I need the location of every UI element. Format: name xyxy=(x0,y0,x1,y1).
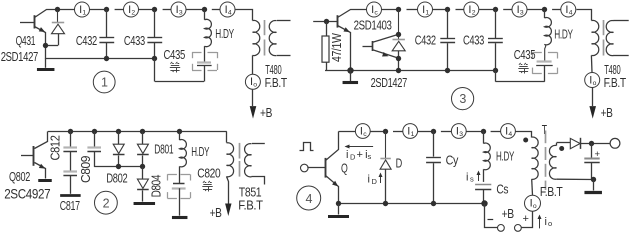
C435 plates xyxy=(197,61,211,63)
wire c3 f xyxy=(527,9,544,11)
current meter I4 c4 xyxy=(501,124,516,139)
node dot Cy top xyxy=(431,129,436,134)
circuit 3: darlington horizontal output stage xyxy=(0,0,1,1)
current meter I1 c3 xyxy=(418,2,433,17)
T851 secondary bottom lead xyxy=(252,177,265,185)
svg-text:C432: C432 xyxy=(76,33,97,48)
resistor 47/1W xyxy=(326,21,328,36)
capacitor C432 c3 xyxy=(447,10,449,39)
circled number 3 xyxy=(452,88,474,110)
flyback T primary c4 xyxy=(531,136,533,138)
ground c4 xyxy=(338,204,340,215)
node dot diode top xyxy=(396,32,401,37)
svg-text:C432: C432 xyxy=(415,33,436,48)
T480 secondary top lead c3 xyxy=(613,20,628,22)
T480 secondary bottom lead c3 xyxy=(613,55,628,57)
node dot rail Cy c4 xyxy=(431,201,436,206)
svg-text:1: 1 xyxy=(411,131,415,138)
transistor 2SD1403 body xyxy=(337,15,339,27)
node dot H.DY top xyxy=(202,7,207,12)
svg-text:2: 2 xyxy=(472,9,476,16)
label deng c2 xyxy=(203,181,205,183)
T480 core xyxy=(264,20,266,35)
secondary top wire to diode xyxy=(557,142,571,144)
node dot bottom C432 xyxy=(104,56,109,61)
node dot C432 top xyxy=(104,7,109,12)
svg-text:F.B.T: F.B.T xyxy=(540,184,563,199)
wire collector to Ic xyxy=(339,131,356,133)
retrace capacitor C435 bracket box c3 xyxy=(532,52,542,54)
svg-text:+ i: + i xyxy=(357,149,368,161)
deflection yoke H.DY coil c3 xyxy=(544,10,546,19)
current meter I1 xyxy=(75,2,90,17)
mid rail c2 xyxy=(94,166,143,168)
Q431 emitter arrow xyxy=(39,27,47,34)
current meter I3 c4 xyxy=(451,124,466,139)
current meter I3 xyxy=(171,2,186,17)
wire plus terminal to Io xyxy=(522,212,533,228)
transistor Q802 body xyxy=(33,146,35,166)
2SD1427 collector wire xyxy=(373,34,399,42)
2SD1403 emitter wire xyxy=(338,26,351,71)
+B arrow circuit 1 xyxy=(252,90,254,106)
deflection yoke H.DY coil c2 xyxy=(179,131,181,140)
wire I1-C432 xyxy=(90,9,107,11)
wire c4 a xyxy=(393,131,403,133)
T core c4 xyxy=(545,131,547,144)
current meter I4 xyxy=(220,2,235,17)
node dot D802 top xyxy=(116,129,121,134)
svg-text:o: o xyxy=(253,82,257,89)
ground D804 xyxy=(134,202,156,205)
rectifier diode c4 xyxy=(570,138,580,148)
svg-text:C809: C809 xyxy=(79,156,93,183)
ground filter cap xyxy=(593,180,595,191)
T secondary c4 xyxy=(556,143,558,146)
svg-text:C817: C817 xyxy=(60,198,80,213)
Q emitter arrow xyxy=(332,181,340,189)
Q802 base wire xyxy=(21,155,34,157)
svg-text:o: o xyxy=(593,80,597,87)
node dot rectifier out xyxy=(589,141,594,146)
capacitor C433 c3 xyxy=(495,10,497,39)
svg-text:i: i xyxy=(545,216,547,228)
T480 secondary top lead xyxy=(277,20,291,22)
circled number 2 xyxy=(95,191,118,214)
svg-text:D804: D804 xyxy=(149,175,163,198)
T480 primary bottom lead xyxy=(252,55,254,74)
wire c3 d xyxy=(479,9,495,11)
capacitor C433 xyxy=(154,10,156,38)
Q802 collector wire xyxy=(35,132,48,149)
wire c3 a xyxy=(407,9,418,11)
diode D804 xyxy=(142,167,144,179)
wire I4 to T480 xyxy=(236,10,253,21)
2SD1427 emitter arrow xyxy=(382,52,389,58)
node dot rail diode c3 xyxy=(396,68,401,73)
bottom rail circuit 1 xyxy=(46,58,155,60)
svg-text:4: 4 xyxy=(228,9,232,16)
wire c3 g xyxy=(552,9,560,11)
diode D802 xyxy=(118,131,120,144)
svg-text:47/1W: 47/1W xyxy=(330,33,344,62)
ground c3 xyxy=(350,70,352,81)
flyback T480 primary winding xyxy=(253,20,260,55)
node dot rail C433 c3 xyxy=(493,68,498,73)
current meter I3 c3 xyxy=(512,2,527,17)
Q emitter wire xyxy=(326,176,339,204)
label minus xyxy=(488,219,494,221)
label deng c3 xyxy=(519,63,521,65)
svg-text:i: i xyxy=(466,172,468,184)
C435 bottom wire c3 xyxy=(544,65,546,81)
svg-text:D802: D802 xyxy=(106,171,127,186)
Q collector wire xyxy=(326,132,339,161)
T851 secondary top lead xyxy=(252,143,265,145)
svg-text:+B: +B xyxy=(601,105,613,120)
node dot HDY c3 xyxy=(542,7,547,12)
svg-text:C812: C812 xyxy=(49,135,63,160)
svg-text:H.DY: H.DY xyxy=(215,26,234,41)
T851 secondary xyxy=(245,144,252,177)
Q431 emitter wire xyxy=(35,27,46,59)
flyback T851 primary xyxy=(227,143,234,177)
svg-text:Q431: Q431 xyxy=(16,33,36,48)
T480 secondary c3 xyxy=(606,21,613,56)
+B arrow circuit 3 xyxy=(592,88,594,106)
node dot HDY top c4 xyxy=(481,129,486,134)
secondary phase dot xyxy=(559,146,564,151)
wire c4 d xyxy=(466,131,483,133)
node dot c3 rail1 xyxy=(396,7,401,12)
svg-text:c: c xyxy=(363,131,367,138)
svg-text:+B: +B xyxy=(502,206,515,221)
current meter I2 xyxy=(124,2,139,17)
svg-text:F.B.T: F.B.T xyxy=(604,75,626,90)
2SD1427 emitter wire xyxy=(373,50,399,59)
current meter I2 c3 xyxy=(464,2,479,17)
current meter Io c1 xyxy=(245,74,260,89)
T480 core c3 xyxy=(603,20,605,35)
label io up xyxy=(539,216,541,229)
svg-text:3: 3 xyxy=(179,9,183,16)
node dot rail D c4 xyxy=(383,201,388,206)
svg-text:Cy: Cy xyxy=(446,153,459,168)
node dot on emitter xyxy=(43,43,48,48)
svg-text:4: 4 xyxy=(508,131,512,138)
wire c4 b xyxy=(418,131,434,133)
node dot secondary bottom xyxy=(591,177,596,182)
filter capacitor c4 xyxy=(591,143,593,158)
svg-text:i: i xyxy=(368,174,370,186)
svg-text:C435: C435 xyxy=(514,47,536,62)
svg-text:D: D xyxy=(396,156,402,171)
node dot C812 xyxy=(68,129,73,134)
transistor 2SD1427 body (inner) xyxy=(372,41,374,51)
T480 secondary bottom lead xyxy=(277,55,291,57)
wire diode to output xyxy=(581,143,610,145)
T480 secondary winding xyxy=(269,21,276,56)
input wire c3 xyxy=(313,21,337,23)
current meter Ic c3 xyxy=(367,2,382,17)
svg-text:Cs: Cs xyxy=(496,182,508,197)
circuit 4: equivalent circuit with current labels xyxy=(0,0,1,1)
damper diode of Q431 xyxy=(57,10,59,23)
wire to minus terminal xyxy=(485,204,498,228)
svg-text:2: 2 xyxy=(103,196,110,210)
ground below Q431 emitter xyxy=(45,58,47,68)
ground C820 xyxy=(172,216,188,219)
diode-to-emitter wire xyxy=(46,45,58,47)
input wire c4 xyxy=(307,167,325,169)
input pulse symbol xyxy=(300,143,314,151)
circuit 1: horizontal output stage, single transistor xyxy=(0,0,1,1)
wire HDY-I4 xyxy=(212,9,220,11)
wire I4 to T xyxy=(516,132,532,138)
node dot HDY c2 xyxy=(177,129,182,134)
node dot rail Cs c4 xyxy=(481,200,487,206)
capacitor C812 xyxy=(70,131,72,147)
svg-text:4: 4 xyxy=(569,9,573,16)
transistor Q body xyxy=(325,158,327,178)
current meter Io c4 xyxy=(525,195,541,211)
svg-text:C435: C435 xyxy=(164,47,186,62)
node dot D801 top xyxy=(140,129,145,134)
svg-text:+B: +B xyxy=(210,205,222,220)
wire c4 c xyxy=(441,131,452,133)
svg-text:F.B.T: F.B.T xyxy=(238,198,263,213)
plus terminal circle xyxy=(515,225,522,232)
svg-text:C820: C820 xyxy=(197,166,220,181)
wire I3 left xyxy=(163,9,171,11)
C820 bottom wire xyxy=(179,188,181,215)
node dot bottom C433 xyxy=(152,56,157,61)
deflection yoke H.DY c4 xyxy=(483,131,485,144)
capacitor C809 xyxy=(94,131,96,147)
bottom rail c4 xyxy=(339,203,485,205)
node dot C432 c3 xyxy=(445,7,450,12)
top rail c2 xyxy=(48,131,227,133)
node dot D802 bottom xyxy=(116,164,121,169)
svg-text:+: + xyxy=(523,213,529,225)
node dot rail C432 c3 xyxy=(445,68,450,73)
bottom rail c3 xyxy=(325,70,495,72)
2SD1403 emitter arrow xyxy=(343,27,351,34)
node dot D top xyxy=(383,129,388,134)
2SD1427 base stub xyxy=(363,46,373,48)
svg-text:i: i xyxy=(346,149,348,161)
wire I2 left xyxy=(115,9,124,11)
T851 core xyxy=(239,143,241,159)
wire Ic-node xyxy=(382,9,399,11)
wire c4 e xyxy=(491,131,501,133)
svg-text:+B: +B xyxy=(260,105,272,120)
capacitor C432 xyxy=(106,10,108,38)
capacitor Cs xyxy=(475,184,491,186)
primary phase dot xyxy=(523,138,528,143)
svg-text:2SC4927: 2SC4927 xyxy=(4,186,51,202)
wire Ic-D node xyxy=(370,131,385,133)
node dot rail emitter c3 xyxy=(347,67,353,73)
svg-text:1: 1 xyxy=(82,9,86,16)
capacitor C817 xyxy=(63,170,77,172)
arrow iD+is xyxy=(346,146,374,148)
wire I3-HDY node xyxy=(186,9,204,11)
circled number 1 xyxy=(93,71,115,93)
input terminal circle xyxy=(301,164,309,172)
transistor Q431 body xyxy=(34,15,36,28)
svg-text:3: 3 xyxy=(520,9,524,16)
C435 plates c3 xyxy=(537,60,552,62)
svg-text:4: 4 xyxy=(305,192,312,206)
svg-text:Q: Q xyxy=(341,160,348,175)
diode D c4 xyxy=(385,131,387,158)
minus terminal circle xyxy=(498,225,505,232)
current meter I1 c4 xyxy=(403,124,418,139)
circuit 2: output stage with modulator diodes xyxy=(0,0,1,1)
svg-text:o: o xyxy=(548,219,552,228)
svg-text:1: 1 xyxy=(425,9,429,16)
capacitor Cy xyxy=(433,131,435,157)
wire c3 b xyxy=(433,9,448,11)
C820 plates xyxy=(173,183,185,185)
current meter Io c3 xyxy=(585,73,600,88)
node dot C433 top xyxy=(152,7,157,12)
svg-text:o: o xyxy=(533,203,537,210)
retrace capacitor C435 bracket box xyxy=(192,52,202,54)
node dot C433 c3 xyxy=(493,7,498,12)
node dot base c3 xyxy=(324,19,329,24)
Q802 emitter wire xyxy=(35,163,46,179)
wire c3 e xyxy=(503,9,512,11)
deflection yoke H.DY coil xyxy=(204,10,206,20)
svg-text:2SD1427: 2SD1427 xyxy=(1,49,38,64)
ground Q802 xyxy=(38,179,52,182)
svg-text:H.DY: H.DY xyxy=(191,144,209,159)
ground C817 xyxy=(60,194,81,197)
2SD1403 collector wire xyxy=(338,10,367,18)
+B arrow circuit 2 xyxy=(227,177,229,205)
label deng (etc.) xyxy=(170,62,172,64)
wire c3 c xyxy=(456,9,464,11)
svg-text:C433: C433 xyxy=(124,33,145,48)
wire I2-C433 xyxy=(139,9,155,11)
node dot diode bottom xyxy=(396,56,401,61)
svg-text:1: 1 xyxy=(101,76,108,90)
svg-text:2: 2 xyxy=(131,9,135,16)
current meter Ic c4 xyxy=(355,124,370,139)
svg-text:+: + xyxy=(595,149,601,160)
svg-text:H.DY: H.DY xyxy=(554,26,573,41)
Q431 base wire xyxy=(20,22,34,24)
node dot rail emitter c4 xyxy=(336,201,341,206)
node dot D801 bottom xyxy=(140,164,145,169)
svg-text:C433: C433 xyxy=(463,33,484,48)
damper diode c3 xyxy=(398,10,400,40)
svg-text:3: 3 xyxy=(459,92,466,106)
circled number 4 xyxy=(297,186,321,210)
svg-text:Q802: Q802 xyxy=(9,169,30,184)
T480 primary bottom lead c3 xyxy=(590,55,593,72)
svg-text:3: 3 xyxy=(459,131,463,138)
wire rail to T851 xyxy=(226,132,228,143)
node: collector junction dot xyxy=(55,7,60,12)
output terminal circle xyxy=(610,138,620,148)
wire I4 to T480 c3 xyxy=(577,10,592,21)
svg-text:2SD1427: 2SD1427 xyxy=(371,75,407,90)
node dot C809 xyxy=(92,129,97,134)
current meter I4 c3 xyxy=(561,2,576,17)
svg-text:2SD1403: 2SD1403 xyxy=(354,18,392,33)
svg-text:F.B.T: F.B.T xyxy=(265,75,287,90)
C435 bottom wire xyxy=(204,66,206,82)
modulation capacitor C820 bracket box xyxy=(167,174,177,176)
svg-text:c: c xyxy=(374,9,378,16)
diode D801 xyxy=(142,131,144,144)
svg-text:H.DY: H.DY xyxy=(496,148,514,163)
svg-text:D801: D801 xyxy=(154,141,173,156)
flyback T480 primary c3 xyxy=(592,20,599,55)
secondary bottom lead c4 xyxy=(557,178,593,180)
Q431 collector wire xyxy=(35,10,75,18)
Q802 emitter arrow xyxy=(39,164,47,171)
